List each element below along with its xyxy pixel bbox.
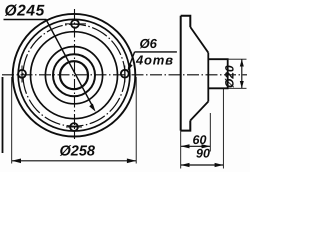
svg-text:Ø20: Ø20 bbox=[223, 65, 237, 88]
shelf D6 bbox=[135, 51, 177, 53]
svg-text:Ø258: Ø258 bbox=[60, 144, 96, 160]
side cone bottom slant bbox=[190, 102, 208, 121]
dim D258 line bbox=[12, 160, 137, 162]
dim D20 extension bottom bbox=[229, 87, 247, 89]
leader D245 bbox=[4, 20, 94, 109]
circle cone base bbox=[45, 47, 102, 104]
svg-text:4отв: 4отв bbox=[135, 53, 174, 68]
hole top D6 with crosshair bbox=[71, 20, 79, 28]
circle flange face bbox=[18, 19, 130, 131]
svg-text:90: 90 bbox=[196, 147, 210, 161]
dim D20 extension top bbox=[229, 58, 247, 60]
dim D258 extension right bbox=[135, 77, 137, 164]
outer circle D258 bbox=[13, 14, 136, 137]
centerline vertical axis bbox=[74, 9, 76, 139]
dim 60 line bbox=[181, 145, 211, 147]
svg-text:Ø245: Ø245 bbox=[5, 2, 45, 19]
leader D6 bbox=[129, 52, 135, 68]
hole right D6 with crosshair bbox=[121, 70, 129, 78]
bolt circle dash-dot bbox=[23, 24, 125, 126]
centerline horizontal axis bbox=[2, 74, 247, 76]
svg-text:60: 60 bbox=[193, 133, 207, 147]
dim 60 extension right bbox=[209, 113, 211, 152]
svg-text:Ø6: Ø6 bbox=[140, 36, 158, 51]
circle D245 bbox=[31, 32, 118, 119]
side boss bbox=[208, 59, 227, 88]
dim D20 line bbox=[241, 59, 243, 88]
hole left D6 with crosshair bbox=[18, 70, 26, 78]
dim 90 extension right bbox=[222, 88, 224, 168]
dim 90 line bbox=[181, 164, 224, 166]
circle step bbox=[53, 54, 95, 96]
side view plate bbox=[181, 16, 191, 131]
dim D258 extension left bbox=[11, 77, 13, 164]
side cone top slant bbox=[190, 27, 208, 53]
border line left edge bbox=[2, 77, 4, 153]
circle bore bbox=[60, 61, 88, 89]
dim 90 extension left bbox=[180, 131, 182, 169]
hole bottom D6 with crosshair bbox=[70, 123, 78, 131]
side cone end face bbox=[207, 53, 209, 102]
